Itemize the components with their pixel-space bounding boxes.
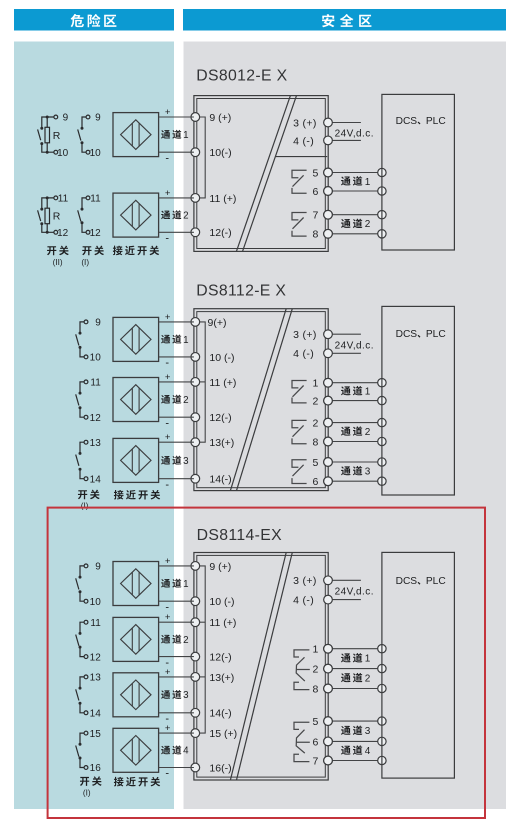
output terminal 7 — [313, 755, 333, 767]
output terminal 2 — [313, 396, 333, 408]
output terminal 2 — [313, 664, 333, 676]
svg-text:3 (+): 3 (+) — [293, 575, 317, 587]
svg-text:1: 1 — [365, 387, 371, 398]
svg-text:2: 2 — [313, 396, 319, 408]
svg-text:14: 14 — [90, 474, 102, 485]
svg-text:DS8012-E X: DS8012-E X — [196, 67, 287, 84]
relay output contact symbol — [292, 170, 307, 193]
input terminal 10 — [191, 352, 235, 364]
svg-text:3: 3 — [183, 456, 189, 467]
svg-text:11: 11 — [90, 194, 101, 205]
input terminal 11 — [191, 617, 236, 629]
svg-text:13(+): 13(+) — [209, 672, 234, 684]
input terminal 16 — [191, 762, 232, 774]
output terminal 5 — [313, 457, 333, 469]
output terminal 8 — [313, 436, 333, 448]
relay output contact symbol — [292, 213, 307, 237]
proximity sensor (NAMUR) channel 4 box — [113, 728, 159, 772]
switch contact (terminals 11/12) — [76, 380, 88, 419]
proximity sensor (NAMUR) channel 1 box — [113, 113, 159, 157]
switch contact (terminals 11/12) — [76, 620, 88, 658]
wire from terminal 6 to DCS — [324, 187, 386, 196]
internal plus-bus wire — [199, 117, 205, 198]
wire from terminal 2 to DCS — [324, 664, 386, 673]
input terminal 10 — [191, 596, 235, 608]
input terminal 11 — [191, 193, 236, 205]
svg-text:13: 13 — [90, 673, 102, 684]
output terminal 3 — [293, 117, 332, 129]
svg-text:3 (+): 3 (+) — [293, 117, 317, 129]
channel name 通道3 — [161, 690, 189, 701]
channel label 通道2 — [341, 673, 371, 685]
switch contact (terminals 13/14) — [76, 440, 88, 480]
column label 开关 — [82, 246, 104, 256]
svg-text:5: 5 — [313, 716, 319, 728]
channel label 通道1 — [341, 386, 371, 398]
24V supply stub wire from terminal 3(+) — [332, 122, 361, 124]
svg-text:11 (+): 11 (+) — [209, 193, 236, 205]
svg-text:11: 11 — [90, 378, 101, 389]
module DS8112-E X outline (double border) — [194, 309, 328, 491]
DCS/PLC box — [382, 552, 455, 778]
svg-text:12: 12 — [57, 228, 69, 239]
svg-text:10 (-): 10 (-) — [209, 596, 234, 608]
svg-text:+: + — [165, 667, 171, 678]
proximity sensor (NAMUR) channel 1 box — [113, 317, 159, 361]
svg-text:2: 2 — [365, 219, 371, 230]
svg-text:11: 11 — [58, 194, 69, 205]
svg-text:8: 8 — [313, 683, 319, 695]
svg-text:11 (+): 11 (+) — [209, 617, 236, 629]
svg-text:PLC: PLC — [426, 329, 446, 340]
channel name 通道2 — [161, 395, 188, 406]
switch contact (terminals 11/12) — [78, 196, 90, 234]
svg-text:+: + — [165, 556, 171, 567]
svg-text:DCS: DCS — [396, 576, 418, 587]
wire sensor to terminal (+) — [159, 197, 194, 199]
svg-text:2: 2 — [183, 211, 188, 222]
input terminal 13 — [191, 437, 234, 449]
svg-text:7: 7 — [313, 755, 319, 767]
svg-text:4: 4 — [365, 746, 371, 757]
svg-text:1: 1 — [365, 654, 371, 665]
svg-text:(II): (II) — [53, 258, 63, 267]
input terminal 11 — [191, 377, 236, 389]
channel label 通道1 — [341, 176, 371, 188]
svg-text:R: R — [53, 210, 61, 222]
wire from terminal 7 to DCS — [324, 210, 386, 219]
module DS8012-E X outline (double border) — [194, 96, 328, 252]
input terminal 14 — [191, 474, 232, 486]
svg-text:14(-): 14(-) — [209, 474, 231, 486]
hazardous-area background panel — [14, 42, 174, 810]
column label 接近开关 — [114, 777, 160, 787]
relay output contact symbol — [292, 420, 307, 443]
output terminal 4 — [293, 595, 332, 607]
svg-text:7: 7 — [313, 210, 319, 222]
switch contact (terminals 9/10) — [78, 115, 90, 154]
switch with parallel resistor R (terminals 9/10) — [38, 115, 58, 154]
svg-text:1: 1 — [313, 644, 319, 656]
svg-text:4 (-): 4 (-) — [293, 348, 314, 360]
column label 开关 — [80, 776, 102, 786]
safe-area header label 安全区 — [322, 14, 371, 27]
wire from terminal 2 to DCS — [324, 396, 386, 405]
DCS、PLC label — [396, 576, 446, 587]
svg-text:-: - — [165, 233, 169, 245]
svg-text:PLC: PLC — [426, 116, 446, 127]
input terminal 14 — [191, 708, 232, 720]
svg-text:9 (+): 9 (+) — [209, 561, 231, 573]
svg-text:4 (-): 4 (-) — [293, 135, 314, 147]
svg-text:4: 4 — [183, 746, 189, 757]
wire sensor to terminal (-) — [159, 478, 194, 480]
svg-text:6: 6 — [313, 476, 319, 488]
wire sensor to terminal (+) — [159, 621, 194, 623]
svg-text:10(-): 10(-) — [209, 147, 231, 159]
dual relay output contact symbol — [294, 722, 310, 761]
svg-text:-: - — [165, 768, 169, 780]
output terminal 4 — [293, 135, 332, 147]
channel name 通道2 — [161, 210, 188, 221]
svg-text:2: 2 — [365, 674, 371, 685]
svg-text:DS8114-EX: DS8114-EX — [197, 527, 283, 544]
wire sensor to terminal (-) — [159, 151, 194, 153]
column label 接近开关 — [114, 490, 160, 500]
svg-text:+: + — [165, 432, 171, 443]
input terminal 12 — [191, 412, 232, 424]
wire from terminal 8 to DCS — [324, 437, 386, 446]
svg-text:DS8112-E X: DS8112-E X — [196, 282, 286, 299]
svg-text:(I): (I) — [81, 258, 89, 267]
DCS/PLC box — [382, 94, 455, 250]
channel label 通道2 — [341, 426, 371, 438]
proximity sensor (NAMUR) channel 2 box — [113, 378, 159, 422]
svg-text:14(-): 14(-) — [209, 708, 231, 720]
column label 接近开关 — [113, 246, 159, 256]
wire sensor to terminal (-) — [159, 767, 194, 769]
output terminal 8 — [313, 683, 333, 695]
output terminal 5 — [313, 716, 333, 728]
DCS、PLC label — [396, 116, 446, 127]
proximity sensor (NAMUR) channel 2 box — [113, 193, 159, 237]
wire sensor to terminal (+) — [159, 321, 194, 323]
svg-text:12: 12 — [90, 228, 102, 239]
hazardous-area header bar — [14, 9, 174, 31]
wire sensor to terminal (-) — [159, 356, 194, 358]
svg-text:24V,d.c.: 24V,d.c. — [335, 129, 374, 140]
input terminal 15 — [191, 728, 237, 740]
internal plus-bus wire — [199, 322, 205, 442]
resistor R — [45, 198, 50, 232]
input terminal 9 — [191, 112, 231, 124]
input terminal 12 — [191, 227, 232, 239]
proximity sensor (NAMUR) channel 3 box — [113, 673, 159, 717]
24V supply stub wire from terminal 4(-) — [332, 139, 361, 141]
relay output contact symbol — [292, 460, 307, 484]
DCS/PLC box — [382, 306, 455, 495]
svg-text:9 (+): 9 (+) — [209, 112, 231, 124]
output terminal 6 — [313, 476, 333, 488]
svg-text:13: 13 — [90, 438, 102, 449]
svg-text:11: 11 — [90, 618, 101, 629]
svg-text:+: + — [165, 188, 171, 199]
output terminal 6 — [313, 186, 333, 198]
wire from terminal 7 to DCS — [324, 756, 386, 765]
wire sensor to terminal (-) — [159, 656, 194, 658]
svg-text:12(-): 12(-) — [209, 227, 231, 239]
svg-text:+: + — [165, 312, 171, 323]
svg-text:10: 10 — [90, 597, 102, 608]
svg-text:+: + — [165, 612, 171, 623]
switch contact (terminals 9/10) — [76, 564, 88, 603]
wire sensor to terminal (+) — [159, 565, 194, 567]
safe-area header bar — [183, 9, 506, 31]
hazardous-area header label 危险区 — [71, 14, 117, 27]
svg-text:(I): (I) — [83, 788, 91, 797]
svg-text:14: 14 — [90, 709, 102, 720]
svg-text:9: 9 — [95, 318, 101, 329]
wire sensor to terminal (+) — [159, 441, 194, 443]
channel label 通道3 — [341, 726, 371, 738]
24V supply stub wire from terminal 4(-) — [332, 599, 361, 601]
svg-text:10: 10 — [57, 148, 69, 159]
wire sensor to terminal (-) — [159, 416, 194, 418]
svg-text:12(-): 12(-) — [209, 652, 231, 664]
wire from terminal 1 to DCS — [324, 644, 386, 653]
svg-text:6: 6 — [313, 736, 319, 748]
output terminal 3 — [293, 575, 332, 587]
svg-text:24V,d.c.: 24V,d.c. — [335, 587, 374, 598]
channel label 通道2 — [341, 219, 371, 231]
svg-text:16(-): 16(-) — [209, 762, 231, 774]
svg-text:2: 2 — [313, 418, 319, 430]
svg-text:3: 3 — [365, 726, 371, 737]
switch contact (terminals 9/10) — [76, 320, 88, 359]
svg-text:3: 3 — [183, 690, 189, 701]
svg-text:8: 8 — [313, 436, 319, 448]
24V supply stub wire from terminal 4(-) — [332, 352, 361, 354]
channel label 通道1 — [341, 653, 371, 665]
svg-text:2: 2 — [365, 427, 371, 438]
svg-text:10 (-): 10 (-) — [209, 352, 234, 364]
svg-text:1: 1 — [313, 378, 319, 390]
channel name 通道1 — [161, 335, 188, 346]
svg-text:11 (+): 11 (+) — [209, 377, 236, 389]
svg-text:24V,d.c.: 24V,d.c. — [335, 340, 374, 351]
proximity sensor (NAMUR) channel 3 box — [113, 438, 159, 482]
wire from terminal 2 to DCS — [324, 418, 386, 427]
svg-text:12: 12 — [90, 652, 102, 663]
wire sensor to terminal (+) — [159, 676, 194, 678]
wire sensor to terminal (+) — [159, 381, 194, 383]
svg-text:3: 3 — [365, 467, 371, 478]
output terminal 4 — [293, 348, 332, 360]
channel name 通道4 — [161, 745, 189, 756]
svg-text:12: 12 — [90, 413, 102, 424]
input terminal 12 — [191, 652, 232, 664]
svg-text:13(+): 13(+) — [209, 437, 234, 449]
output terminal 3 — [293, 329, 332, 341]
24V supply stub wire from terminal 3(+) — [332, 333, 361, 335]
wire from terminal 1 to DCS — [324, 378, 386, 387]
output terminal 2 — [313, 418, 333, 430]
svg-text:3 (+): 3 (+) — [293, 329, 317, 341]
svg-text:10: 10 — [90, 353, 102, 364]
svg-text:12(-): 12(-) — [209, 412, 231, 424]
channel label 通道4 — [341, 745, 371, 757]
svg-text:9(+): 9(+) — [208, 317, 227, 329]
svg-text:DCS: DCS — [396, 329, 418, 340]
DS8114-EX highlight rectangle (red) — [48, 508, 485, 818]
svg-text:-: - — [165, 417, 169, 429]
svg-text:2: 2 — [313, 664, 319, 676]
isolation barrier diagonal separator — [230, 553, 292, 781]
svg-text:PLC: PLC — [426, 576, 446, 587]
output terminal 5 — [313, 167, 333, 179]
svg-text:9: 9 — [95, 562, 101, 573]
output terminal 1 — [313, 378, 333, 390]
column label 开关 — [78, 490, 100, 500]
svg-text:6: 6 — [313, 186, 319, 198]
isolation barrier diagonal separator — [230, 309, 292, 491]
relay output contact symbol — [292, 381, 307, 403]
svg-text:-: - — [165, 152, 169, 164]
proximity sensor (NAMUR) channel 1 box — [113, 562, 159, 606]
input terminal 9 — [191, 317, 227, 329]
wire from terminal 6 to DCS — [324, 477, 386, 486]
channel name 通道1 — [161, 579, 188, 590]
svg-text:8: 8 — [313, 229, 319, 241]
output terminal 8 — [313, 229, 333, 241]
wire sensor to terminal (-) — [159, 712, 194, 714]
channel name 通道2 — [161, 635, 188, 646]
channel name 通道1 — [161, 130, 188, 141]
dual relay output contact symbol — [294, 650, 310, 690]
svg-text:R: R — [53, 130, 61, 142]
svg-text:(I): (I) — [81, 501, 89, 510]
channel name 通道3 — [161, 456, 189, 467]
wire sensor to terminal (+) — [159, 116, 194, 118]
proximity sensor (NAMUR) channel 2 box — [113, 617, 159, 661]
svg-text:5: 5 — [313, 167, 319, 179]
svg-text:-: - — [165, 357, 169, 369]
switch with parallel resistor R (terminals 11/12) — [38, 196, 58, 234]
wire from terminal 8 to DCS — [324, 684, 386, 693]
svg-text:9: 9 — [95, 113, 101, 124]
output terminal 1 — [313, 644, 333, 656]
svg-text:DCS: DCS — [396, 116, 418, 127]
wire from terminal 6 to DCS — [324, 737, 386, 746]
svg-text:+: + — [165, 723, 171, 734]
output terminal 7 — [313, 210, 333, 222]
output terminal 6 — [313, 736, 333, 748]
svg-text:-: - — [165, 479, 169, 491]
svg-text:1: 1 — [365, 177, 371, 188]
svg-text:4 (-): 4 (-) — [293, 595, 314, 607]
safe-area background panel — [184, 42, 507, 810]
wire sensor to terminal (-) — [159, 600, 194, 602]
input terminal 10 — [191, 147, 232, 159]
svg-text:2: 2 — [183, 395, 188, 406]
switch contact (terminals 13/14) — [76, 675, 88, 715]
input terminal 13 — [191, 672, 234, 684]
svg-text:16: 16 — [90, 763, 102, 774]
wire from terminal 5 to DCS — [324, 458, 386, 467]
switch contact (terminals 15/16) — [76, 731, 88, 769]
svg-text:1: 1 — [183, 130, 188, 141]
internal plus-bus wire — [199, 566, 205, 733]
svg-text:1: 1 — [183, 579, 188, 590]
wire from terminal 5 to DCS — [324, 717, 386, 726]
channel label 通道3 — [341, 466, 371, 478]
svg-text:1: 1 — [183, 335, 188, 346]
wire sensor to terminal (-) — [159, 231, 194, 233]
resistor R — [45, 117, 50, 152]
DCS、PLC label — [396, 329, 446, 340]
isolation barrier diagonal separator — [236, 96, 296, 252]
power section separator line — [276, 156, 328, 158]
svg-text:15 (+): 15 (+) — [209, 728, 237, 740]
module DS8114-EX outline (double border) — [194, 553, 328, 781]
svg-text:15: 15 — [90, 729, 102, 740]
wire sensor to terminal (+) — [159, 732, 194, 734]
svg-text:5: 5 — [313, 457, 319, 469]
svg-text:10: 10 — [90, 148, 102, 159]
svg-text:9: 9 — [63, 113, 69, 124]
wire from terminal 5 to DCS — [324, 168, 386, 177]
column label 开关 — [47, 246, 69, 256]
input terminal 9 — [191, 561, 231, 573]
wire from terminal 8 to DCS — [324, 229, 386, 238]
svg-text:+: + — [165, 372, 171, 383]
24V supply stub wire from terminal 3(+) — [332, 579, 361, 581]
svg-text:2: 2 — [183, 635, 188, 646]
svg-text:+: + — [165, 107, 171, 118]
